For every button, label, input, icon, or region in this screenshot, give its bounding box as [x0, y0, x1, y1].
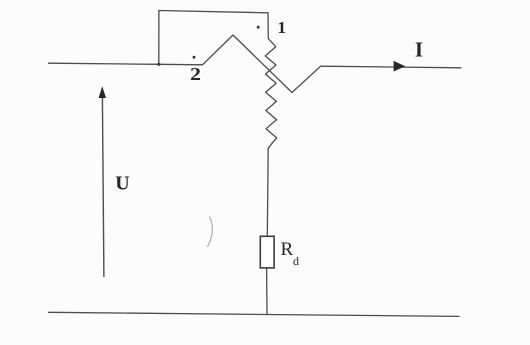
wire resistor to bottom rail: [266, 268, 268, 314]
junction node at box left corner: [157, 63, 160, 66]
inductor L1 outer loop (top box): [159, 11, 268, 65]
terminal dot of node 1: [257, 26, 260, 29]
wire top-right horizontal: [321, 66, 461, 68]
wire winding to resistor: [266, 149, 269, 237]
svg-text:d: d: [293, 254, 299, 268]
arrowhead of current I: [394, 61, 406, 72]
voltage arrow U shaft: [102, 96, 104, 277]
svg-text:R: R: [281, 239, 294, 260]
inductor L1 winding zigzag: [265, 39, 276, 149]
svg-text:I: I: [415, 37, 423, 61]
stray arc mark: [208, 217, 213, 248]
wire bottom rail: [49, 312, 460, 316]
wire tap diagonal (node 2 to node 1 crossing winding): [203, 35, 321, 93]
svg-text:2: 2: [190, 65, 201, 85]
svg-text:U: U: [115, 173, 129, 195]
resistor Rd body: [260, 236, 274, 268]
svg-text:1: 1: [278, 18, 287, 37]
wire top-left horizontal: [49, 63, 203, 65]
voltage arrow U head: [99, 86, 106, 98]
terminal dot of node 2: [193, 56, 196, 59]
